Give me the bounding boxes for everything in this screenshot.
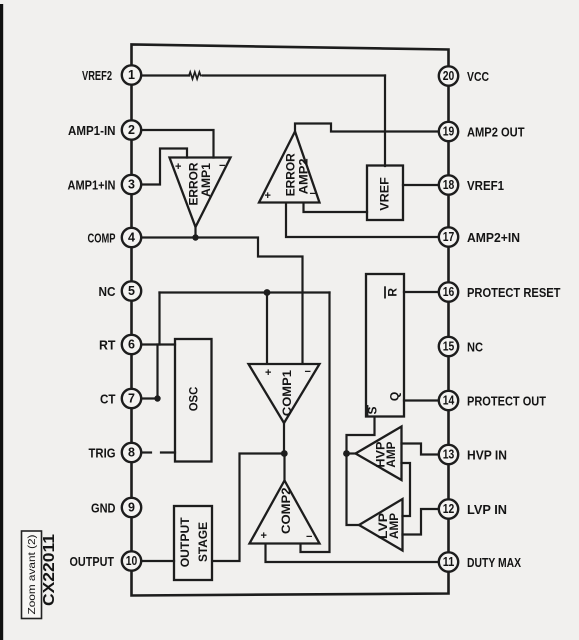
svg-text:OUTPUT: OUTPUT (70, 554, 115, 569)
pin 12 (439, 499, 458, 518)
svg-text:VCC: VCC (467, 69, 489, 84)
pin 15 (439, 337, 458, 356)
wire pin1 VREF2 to VREF (with resistor) (141, 74, 189, 76)
pin 11 (439, 552, 458, 571)
svg-text:7: 7 (128, 391, 135, 405)
svg-text:−: − (305, 366, 311, 378)
svg-text:AMP: AMP (387, 513, 401, 539)
flip-flop R input label (385, 286, 400, 298)
svg-text:12: 12 (443, 502, 455, 516)
svg-text:−: − (310, 188, 316, 200)
comparator COMP2 (250, 481, 320, 544)
svg-text:ERROR: ERROR (284, 153, 298, 196)
svg-text:−: − (306, 531, 312, 543)
svg-text:OUTPUT: OUTPUT (178, 517, 192, 568)
op-amp HVP AMP (356, 427, 402, 481)
wire pin6 RT to OSC (141, 343, 175, 345)
block OSC (175, 339, 212, 462)
svg-text:VREF1: VREF1 (467, 178, 504, 193)
wire COMP2 output up (283, 454, 285, 481)
svg-text:NC: NC (99, 284, 117, 299)
op-amp HVP AMP text (374, 442, 399, 468)
svg-text:8: 8 (128, 445, 135, 459)
svg-text:16: 16 (443, 285, 455, 299)
block flip-flop U2 (366, 274, 404, 417)
wire comparator node to OUTPUT STAGE (213, 454, 285, 562)
svg-text:COMP: COMP (88, 231, 116, 246)
pin 8 (122, 443, 141, 462)
svg-text:+: + (265, 190, 271, 202)
junction oscillator rail to COMP1 plus (264, 289, 271, 296)
svg-text:VREF: VREF (377, 177, 391, 211)
pin 7 (122, 389, 141, 408)
svg-text:AMP2 OUT: AMP2 OUT (467, 125, 525, 140)
wire node down to LVP output (347, 454, 360, 526)
pin 16 (439, 282, 458, 301)
svg-text:Zoom avant (2): Zoom avant (2) (26, 535, 38, 615)
svg-text:+: + (265, 367, 271, 379)
pin 2 (122, 120, 141, 139)
svg-text:1: 1 (128, 68, 135, 82)
wire LVP input2 to pin12 (403, 509, 441, 535)
pin 14 (439, 391, 458, 410)
pin 19 (439, 122, 458, 141)
op-amp ERROR AMP1 (170, 158, 231, 228)
IC package border (132, 45, 449, 596)
wire pin4 COMP to COMP1 minus (141, 238, 303, 364)
svg-text:11: 11 (443, 555, 455, 569)
op-amp ERROR AMP1 text (175, 160, 225, 206)
wire protect node to flip-flop S (347, 417, 375, 454)
junction CT node (154, 395, 160, 401)
wire VREF to pin18 (403, 184, 440, 186)
svg-text:−: − (219, 160, 225, 172)
scan edge bar (0, 4, 3, 640)
svg-text:6: 6 (128, 337, 135, 351)
svg-text:VREF2: VREF2 (82, 68, 112, 83)
svg-text:PROTECT RESET: PROTECT RESET (467, 285, 561, 300)
svg-text:CT: CT (100, 392, 116, 407)
wire pin11 DUTY MAX to COMP2 plus (266, 544, 441, 562)
pin 13 (439, 445, 458, 464)
block OUTPUT STAGE (174, 506, 212, 580)
junction comparator outputs (281, 450, 288, 457)
pin 10 (122, 551, 141, 570)
svg-text:GND: GND (91, 501, 116, 516)
pin 17 (439, 227, 458, 246)
wire HVP input2 chain to LVP input (402, 463, 411, 516)
wire ERROR AMP1 output to COMP node (194, 226, 196, 238)
svg-text:10: 10 (126, 554, 138, 568)
svg-text:13: 13 (443, 447, 455, 461)
wire flip-flop R to pin16 (404, 291, 440, 293)
svg-text:3: 3 (128, 177, 135, 191)
svg-text:DUTY MAX: DUTY MAX (467, 555, 521, 570)
svg-text:5: 5 (128, 284, 135, 298)
svg-text:AMP1: AMP1 (199, 163, 213, 197)
svg-text:15: 15 (443, 339, 455, 353)
svg-text:TRIG: TRIG (89, 446, 116, 461)
svg-text:AMP: AMP (384, 442, 398, 468)
block VREF (367, 166, 403, 221)
block OUTPUT STAGE text (178, 517, 210, 568)
svg-text:20: 20 (443, 69, 455, 83)
wire down to VREF box top (384, 76, 386, 167)
svg-text:AMP1-IN: AMP1-IN (68, 123, 116, 138)
junction on COMP node (192, 234, 198, 240)
svg-text:14: 14 (443, 393, 455, 407)
pin 20 (439, 66, 458, 85)
svg-text:R: R (386, 288, 400, 297)
pin 6 (122, 335, 141, 354)
svg-text:CX22011: CX22011 (41, 534, 58, 606)
wire flip-flop Q to pin14 (404, 399, 440, 401)
wire COMP1 output down (283, 423, 285, 454)
svg-text:Q: Q (388, 392, 402, 401)
wire rail right drop to COMP2 minus (301, 293, 330, 553)
wire HVP input to pin13 (402, 444, 441, 455)
wire resistor to node above VREF (203, 74, 385, 76)
wire HVP output to node (347, 452, 356, 454)
svg-text:19: 19 (443, 124, 455, 138)
wire pin10 to OUTPUT STAGE (141, 560, 174, 562)
junction protect amps outputs (343, 450, 350, 457)
svg-text:+: + (175, 161, 181, 173)
pin 5 (122, 281, 141, 300)
wire ERROR AMP2 minus to VREF (304, 203, 368, 212)
caption box Zoom avant (2) (22, 531, 42, 619)
svg-text:AMP1+IN: AMP1+IN (68, 178, 116, 193)
resistor R1 (189, 72, 201, 79)
svg-text:4: 4 (128, 230, 135, 244)
pin 3 (122, 175, 141, 194)
op-amp LVP AMP (359, 499, 403, 551)
op-amp ERROR AMP2 (259, 132, 320, 203)
wire node to COMP1 plus (266, 293, 268, 364)
svg-text:STAGE: STAGE (196, 522, 210, 562)
pin 4 (122, 228, 141, 247)
svg-text:NC: NC (467, 340, 484, 355)
wire pin17 AMP2+IN to ERROR AMP2 input (286, 203, 440, 237)
svg-text:LVP IN: LVP IN (467, 502, 507, 517)
op-amp ERROR AMP2 text (265, 153, 316, 202)
svg-text:COMP2: COMP2 (279, 487, 293, 534)
svg-text:COMP1: COMP1 (280, 370, 294, 416)
svg-text:ERROR: ERROR (186, 162, 200, 205)
pin 18 (439, 175, 458, 194)
svg-text:AMP2+IN: AMP2+IN (467, 230, 520, 245)
svg-text:9: 9 (128, 500, 135, 514)
flip-flop S input label (366, 405, 380, 416)
pin 1 (122, 65, 141, 84)
wire pin8 TRIG (broken segment) (141, 451, 151, 453)
wire oscillator rail (160, 291, 330, 293)
svg-text:PROTECT OUT: PROTECT OUT (467, 394, 546, 409)
svg-text:2: 2 (128, 123, 135, 137)
wire RT to CT junction (156, 345, 158, 399)
wire rail left drop to RT line (158, 293, 160, 345)
svg-text:RT: RT (99, 338, 116, 353)
wire pin7 CT (141, 397, 158, 399)
wire TRIG to OSC (161, 451, 175, 453)
svg-text:AMP2: AMP2 (296, 158, 310, 194)
op-amp LVP AMP text (376, 513, 401, 539)
svg-text:+: + (261, 530, 267, 542)
comparator COMP1 (249, 364, 320, 423)
svg-text:17: 17 (443, 230, 455, 244)
wire ERROR AMP2 output to pin19 (295, 124, 440, 132)
svg-text:OSC: OSC (187, 386, 201, 411)
comparator COMP1 text (265, 366, 311, 416)
wire pin3 to ERROR AMP1 plus (141, 149, 187, 185)
svg-text:18: 18 (443, 178, 455, 192)
comparator COMP2 text (261, 487, 313, 543)
pin 9 (122, 498, 141, 517)
wire pin2 to ERROR AMP1 minus (141, 130, 214, 158)
svg-text:HVP IN: HVP IN (467, 448, 507, 463)
